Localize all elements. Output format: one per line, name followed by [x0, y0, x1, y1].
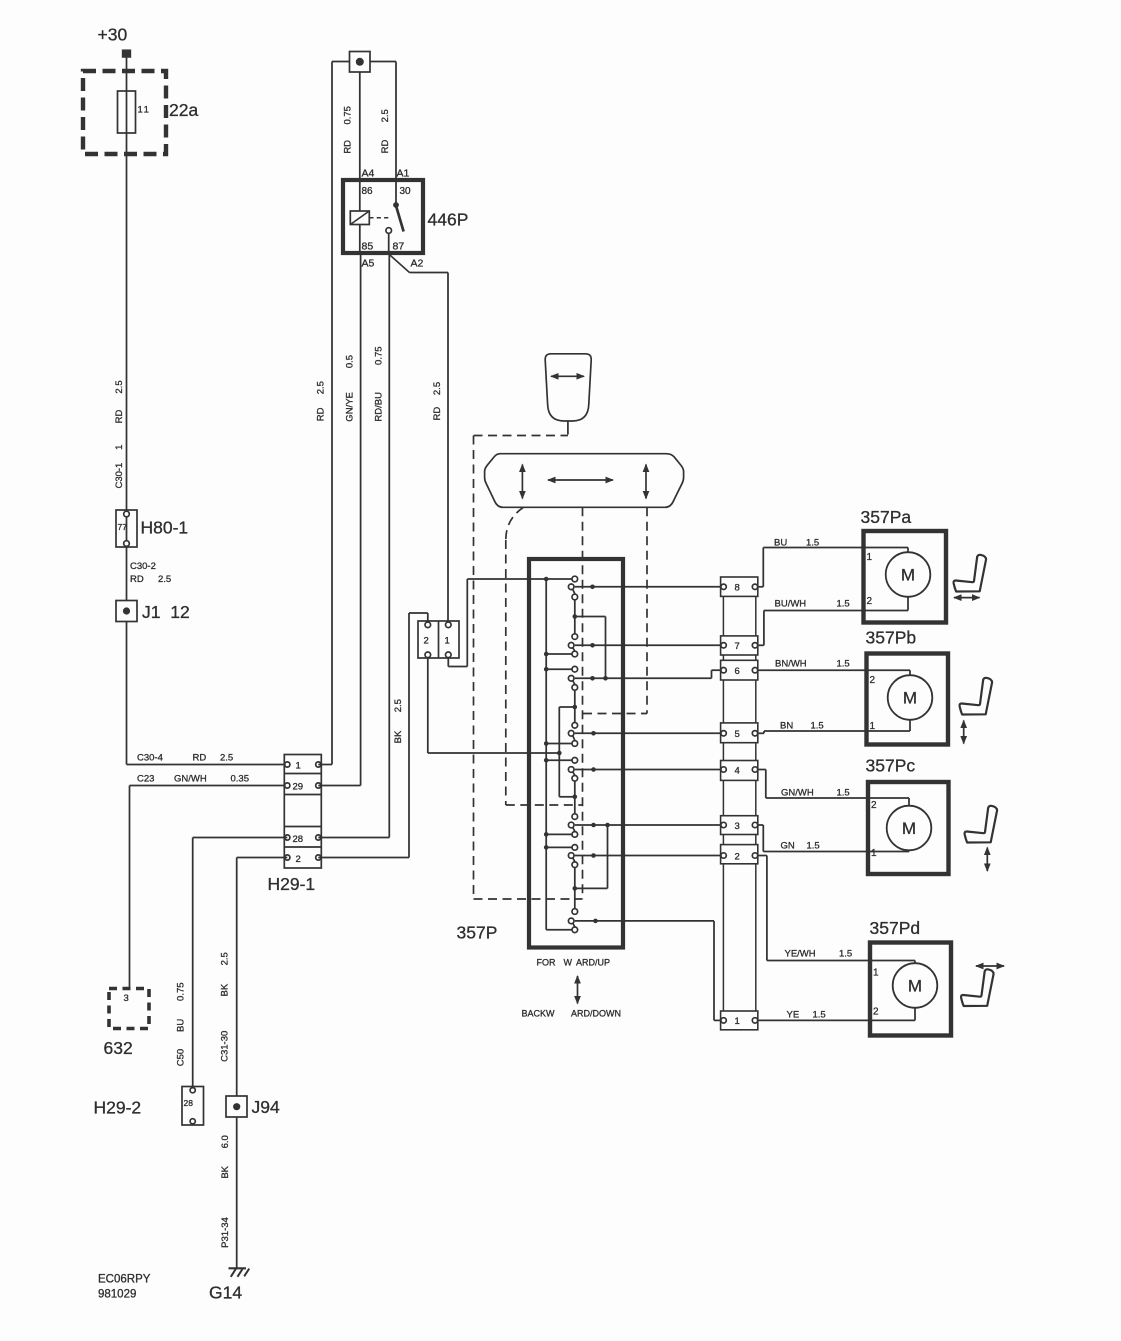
svg-text:0.75: 0.75: [343, 106, 354, 125]
svg-text:A4: A4: [362, 168, 375, 180]
svg-text:YE: YE: [787, 1010, 800, 1021]
svg-text:GN/YE: GN/YE: [345, 392, 356, 422]
svg-text:RD/BU: RD/BU: [373, 392, 384, 422]
svg-text:BU/WH: BU/WH: [775, 599, 807, 610]
svg-text:RD: RD: [130, 574, 144, 585]
svg-text:C30-4: C30-4: [137, 753, 163, 764]
svg-text:981029: 981029: [98, 1289, 136, 1301]
svg-text:BN/WH: BN/WH: [775, 659, 807, 670]
svg-text:H29-1: H29-1: [268, 874, 316, 894]
svg-text:1 1: 1 1: [138, 105, 149, 116]
svg-text:7: 7: [735, 641, 740, 652]
svg-text:3: 3: [735, 821, 740, 832]
svg-text:C23: C23: [137, 774, 154, 785]
svg-text:YE/WH: YE/WH: [785, 949, 816, 960]
svg-text:87: 87: [393, 241, 405, 253]
svg-text:1: 1: [870, 721, 876, 732]
svg-text:77: 77: [118, 522, 128, 532]
svg-text:1.5: 1.5: [837, 659, 850, 670]
svg-text:H29-2: H29-2: [94, 1098, 142, 1118]
svg-text:3: 3: [124, 993, 129, 1004]
svg-text:GN/WH: GN/WH: [174, 774, 207, 785]
svg-text:M: M: [902, 819, 916, 838]
svg-text:GN/WH: GN/WH: [781, 788, 814, 799]
svg-text:2: 2: [735, 851, 740, 862]
svg-text:1: 1: [871, 848, 877, 859]
svg-text:1.5: 1.5: [839, 949, 852, 960]
svg-text:85: 85: [362, 241, 374, 253]
svg-text:1: 1: [735, 1016, 740, 1027]
svg-text:1.5: 1.5: [811, 721, 824, 732]
svg-text:2.5: 2.5: [316, 381, 327, 394]
svg-text:2.5: 2.5: [114, 380, 125, 393]
svg-text:2: 2: [424, 636, 429, 647]
svg-text:C31-30: C31-30: [220, 1031, 231, 1062]
svg-text:357Pc: 357Pc: [866, 756, 916, 776]
svg-text:BU: BU: [175, 1019, 186, 1032]
svg-text:22a: 22a: [169, 100, 198, 120]
svg-text:1: 1: [114, 445, 125, 450]
svg-text:2: 2: [870, 675, 876, 686]
svg-text:G14: G14: [209, 1283, 242, 1303]
svg-text:1.5: 1.5: [837, 788, 850, 799]
svg-text:4: 4: [735, 765, 740, 776]
svg-text:2.5: 2.5: [432, 382, 443, 395]
svg-text:357Pd: 357Pd: [870, 918, 921, 938]
svg-text:H80-1: H80-1: [141, 518, 189, 538]
svg-text:RD: RD: [114, 410, 125, 424]
svg-text:C30-1: C30-1: [114, 463, 125, 489]
svg-text:28: 28: [184, 1098, 194, 1108]
svg-text:RD: RD: [316, 407, 327, 421]
svg-text:30: 30: [400, 186, 412, 197]
svg-text:RD: RD: [343, 140, 354, 154]
svg-text:RD: RD: [193, 753, 207, 764]
svg-text:357Pb: 357Pb: [866, 628, 917, 648]
svg-text:J94: J94: [252, 1097, 280, 1117]
svg-text:BU: BU: [774, 538, 787, 549]
svg-text:446P: 446P: [428, 210, 469, 230]
svg-text:0.35: 0.35: [231, 774, 250, 785]
svg-text:6: 6: [735, 666, 740, 677]
svg-text:M: M: [903, 689, 917, 708]
svg-text:29: 29: [293, 781, 304, 792]
svg-text:A1: A1: [397, 168, 410, 180]
svg-text:2: 2: [867, 596, 873, 607]
svg-text:J1 12: J1 12: [142, 602, 190, 622]
svg-text:2: 2: [873, 1007, 879, 1018]
svg-text:RD: RD: [432, 407, 443, 421]
svg-text:2.5: 2.5: [158, 574, 171, 585]
svg-text:2.5: 2.5: [380, 109, 391, 122]
svg-text:357Pa: 357Pa: [861, 507, 912, 527]
svg-text:EC06RPY: EC06RPY: [98, 1274, 151, 1286]
svg-text:BK: BK: [393, 730, 404, 743]
svg-text:2.5: 2.5: [220, 952, 231, 965]
svg-text:1.5: 1.5: [807, 841, 820, 852]
svg-text:1: 1: [867, 552, 873, 563]
svg-text:GN: GN: [781, 841, 795, 852]
svg-text:1.5: 1.5: [837, 599, 850, 610]
svg-text:BACKW: BACKW: [522, 1009, 556, 1019]
svg-text:2.5: 2.5: [393, 699, 404, 712]
svg-text:357P: 357P: [457, 923, 498, 943]
svg-text:A5: A5: [362, 258, 375, 270]
svg-text:BN: BN: [780, 721, 793, 732]
svg-text:1: 1: [296, 760, 301, 771]
svg-text:M: M: [908, 977, 922, 996]
svg-text:2: 2: [871, 800, 877, 811]
svg-text:+30: +30: [98, 25, 128, 45]
svg-text:1.5: 1.5: [813, 1010, 826, 1021]
svg-text:8: 8: [735, 583, 740, 594]
svg-text:1: 1: [445, 636, 450, 647]
svg-text:1: 1: [873, 968, 879, 979]
svg-text:ARD/DOWN: ARD/DOWN: [571, 1009, 621, 1019]
svg-text:0.5: 0.5: [345, 355, 356, 368]
svg-text:6.0: 6.0: [220, 1135, 231, 1148]
svg-text:RD: RD: [380, 140, 391, 154]
svg-text:M: M: [901, 566, 915, 585]
svg-text:P31-34: P31-34: [220, 1217, 231, 1248]
svg-text:28: 28: [293, 834, 304, 845]
svg-text:5: 5: [735, 729, 740, 740]
svg-text:W: W: [564, 958, 573, 968]
svg-text:ARD/UP: ARD/UP: [576, 958, 610, 968]
svg-text:0.75: 0.75: [373, 346, 384, 365]
svg-text:1.5: 1.5: [806, 538, 819, 549]
svg-text:C30-2: C30-2: [130, 561, 156, 572]
svg-text:BK: BK: [220, 1165, 231, 1178]
svg-text:2.5: 2.5: [220, 753, 233, 764]
svg-text:86: 86: [362, 186, 374, 197]
svg-text:A2: A2: [411, 258, 424, 270]
svg-text:0.75: 0.75: [175, 982, 186, 1001]
svg-text:C50: C50: [175, 1049, 186, 1066]
svg-text:BK: BK: [220, 983, 231, 996]
svg-text:FOR: FOR: [537, 958, 556, 968]
svg-text:2: 2: [296, 854, 301, 865]
svg-text:632: 632: [104, 1038, 133, 1058]
